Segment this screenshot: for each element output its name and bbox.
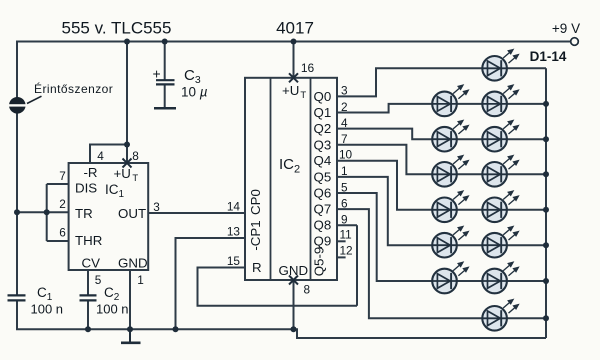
wire Q6 pin5 to row7 xyxy=(337,193,546,281)
touch sensor pointer line xyxy=(27,96,42,103)
node row5 on bus xyxy=(543,207,549,213)
node row7 on bus xyxy=(543,278,549,284)
svg-text:13: 13 xyxy=(227,225,241,239)
wire top +9V rail xyxy=(17,41,571,43)
node 4017 GND on ground rail xyxy=(291,326,297,332)
svg-text:9: 9 xyxy=(341,213,348,227)
LED D13 xyxy=(482,262,518,293)
wire TR pin2 to left rail xyxy=(17,211,69,213)
node row2 on bus xyxy=(543,101,549,107)
svg-text:8: 8 xyxy=(304,283,311,297)
node CP1 on ground rail xyxy=(173,326,179,332)
LED D8 xyxy=(432,191,468,222)
svg-text:Q9: Q9 xyxy=(314,234,332,249)
svg-text:4: 4 xyxy=(97,149,104,163)
LED D9 xyxy=(482,191,518,222)
wire pin12 stub xyxy=(337,256,346,258)
wire CP1 pin13 to ground xyxy=(176,238,246,329)
node 555 supply on rail xyxy=(124,39,130,45)
wire Q7 pin6 to row8 xyxy=(337,209,546,318)
wire LED cathode bus xyxy=(545,68,547,338)
svg-text:3: 3 xyxy=(153,200,160,214)
svg-text:Q0: Q0 xyxy=(314,89,332,104)
node 4017 supply on rail xyxy=(291,39,297,45)
svg-text:GND: GND xyxy=(279,263,309,278)
LED D12 xyxy=(432,262,468,293)
svg-text:Q7: Q7 xyxy=(314,202,332,217)
svg-text:100 n: 100 n xyxy=(31,302,64,317)
wire THR pin6 xyxy=(47,240,69,242)
svg-text:OUT: OUT xyxy=(118,206,146,221)
wire bottom ground rail xyxy=(16,328,294,330)
pin mark X IC1 pin8 xyxy=(123,159,132,168)
svg-text:10: 10 xyxy=(339,147,353,161)
IC2 right divider xyxy=(310,78,312,280)
wire C3 bottom lead xyxy=(164,84,166,107)
wire Q5 pin1 to row6 xyxy=(337,177,546,245)
LED D10 xyxy=(432,227,468,258)
svg-text:Q6: Q6 xyxy=(314,185,332,200)
svg-text:DIS: DIS xyxy=(75,181,97,196)
node GND1 on ground rail xyxy=(127,326,133,332)
svg-text:7: 7 xyxy=(59,169,66,183)
svg-text:6: 6 xyxy=(341,196,348,210)
svg-text:2: 2 xyxy=(341,100,348,114)
svg-text:Q3: Q3 xyxy=(314,137,332,152)
wire 555 pin4 loop xyxy=(90,145,127,164)
svg-text:12: 12 xyxy=(340,244,353,258)
node DIS/TR/THR tie xyxy=(44,209,50,215)
touch sensor Érintőszenzor xyxy=(8,97,27,114)
svg-text:CP0: CP0 xyxy=(248,189,263,215)
node row3 on bus xyxy=(543,136,549,142)
node TR on left rail xyxy=(14,209,20,215)
svg-text:Q2: Q2 xyxy=(314,121,332,136)
op-amp U1 body: IC1 555 box xyxy=(69,163,149,270)
svg-text:15: 15 xyxy=(227,254,241,268)
LED D4 xyxy=(432,121,468,152)
LED D3 xyxy=(482,85,518,116)
LED D5 xyxy=(482,121,518,152)
svg-text:Q1: Q1 xyxy=(314,105,332,120)
pin mark X IC2 pin8 xyxy=(289,276,298,285)
wire 555 supply drop xyxy=(126,42,128,164)
svg-text:555 v. TLC555: 555 v. TLC555 xyxy=(62,19,172,38)
svg-text:14: 14 xyxy=(227,200,241,214)
LED D1 xyxy=(482,50,518,81)
wire left rail xyxy=(16,41,18,296)
svg-text:5: 5 xyxy=(341,180,348,194)
svg-text:THR: THR xyxy=(75,233,102,248)
node pin4/pin8 loop xyxy=(124,142,130,148)
wire Q8 to R vertical xyxy=(356,225,358,306)
wire 4017 GND pin8 lead xyxy=(293,280,295,329)
wire R pin15 loop xyxy=(198,268,358,306)
svg-text:10 µ: 10 µ xyxy=(181,85,208,100)
node row4 on bus xyxy=(543,171,549,177)
wire Q4 pin10 to row5 xyxy=(337,161,546,210)
svg-text:Q5-9: Q5-9 xyxy=(312,247,327,277)
LED D2 xyxy=(432,85,468,116)
wire Q1 pin2 to row2 xyxy=(337,104,546,113)
svg-text:-R: -R xyxy=(84,165,98,180)
svg-text:TR: TR xyxy=(75,206,93,221)
svg-text:1: 1 xyxy=(341,164,348,178)
wire CV pin5 lead xyxy=(87,270,89,295)
LED D6 xyxy=(432,156,468,187)
capacitor C3 xyxy=(156,80,175,84)
terminal +9V xyxy=(571,38,579,46)
svg-text:Q8: Q8 xyxy=(314,218,332,233)
node C3 on rail xyxy=(162,39,168,45)
svg-text:8: 8 xyxy=(132,149,139,163)
IC2 left divider xyxy=(270,78,272,280)
node row6 on bus xyxy=(543,242,549,248)
svg-text:GND: GND xyxy=(118,256,148,271)
wire C2 bottom lead xyxy=(87,300,89,329)
svg-text:+9 V: +9 V xyxy=(552,21,580,36)
svg-text:7: 7 xyxy=(341,132,348,146)
LED D11 xyxy=(482,227,518,258)
wire 4017 supply drop xyxy=(293,42,295,78)
wire DIS-THR tie xyxy=(46,184,48,241)
capacitor C1 xyxy=(8,295,26,300)
wire C3 top lead xyxy=(164,42,166,81)
svg-text:2: 2 xyxy=(59,197,66,211)
ground bar below C3 xyxy=(154,107,176,110)
svg-text:+: + xyxy=(153,66,161,82)
svg-text:-CP1: -CP1 xyxy=(248,220,263,250)
svg-text:R: R xyxy=(252,260,262,275)
wire Q9 pin11 stub xyxy=(337,240,346,242)
node C2 on ground rail xyxy=(85,326,91,332)
svg-text:3: 3 xyxy=(341,84,348,98)
svg-text:CV: CV xyxy=(82,256,101,271)
svg-text:Q4: Q4 xyxy=(314,153,332,168)
wire Q3 pin7 to row4 xyxy=(337,145,546,175)
wire DIS pin7 xyxy=(47,183,69,185)
svg-text:11: 11 xyxy=(340,228,352,242)
wire OUT pin3 to CP0 pin14 xyxy=(148,212,245,214)
svg-text:4: 4 xyxy=(341,116,348,130)
node row8 on bus xyxy=(543,315,549,321)
svg-text:100 n: 100 n xyxy=(96,302,129,317)
svg-text:D1-14: D1-14 xyxy=(530,49,567,64)
pin mark X IC2 pin16 xyxy=(289,73,298,82)
wire C1 bottom lead xyxy=(16,300,18,329)
capacitor C2 xyxy=(80,295,97,300)
svg-text:4017: 4017 xyxy=(276,19,314,38)
wire Q0 pin3 to row1 xyxy=(337,68,546,96)
svg-text:Q5: Q5 xyxy=(314,169,332,184)
ground symbol below IC1 GND xyxy=(121,329,141,343)
svg-text:6: 6 xyxy=(59,226,66,240)
wire Q8 pin9 stub xyxy=(337,224,357,226)
svg-text:5: 5 xyxy=(95,273,102,287)
wire GND pin1 lead xyxy=(129,270,131,329)
wire Q2 pin4 to row3 xyxy=(337,129,546,140)
svg-text:1: 1 xyxy=(137,273,144,287)
svg-text:Érintőszenzor: Érintőszenzor xyxy=(34,81,113,96)
svg-text:16: 16 xyxy=(301,61,315,75)
LED D14 xyxy=(482,300,518,331)
LED D7 xyxy=(482,156,518,187)
wire bottom rail step to LED bus xyxy=(294,329,547,338)
IC2 4017 box xyxy=(245,78,337,280)
